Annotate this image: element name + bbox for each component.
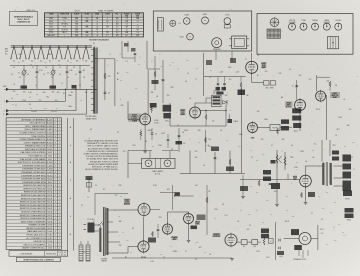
tube V2 6SK7 IF amplifier xyxy=(190,106,201,120)
svg-text:60: 60 xyxy=(95,185,97,187)
svg-text:SP: SP xyxy=(351,157,353,159)
hash choke 1 xyxy=(79,245,83,261)
speaker layout xyxy=(212,38,222,51)
svg-text:6H6: 6H6 xyxy=(251,138,254,140)
svg-text:+ 100: + 100 xyxy=(235,71,239,73)
power transformer T4 core xyxy=(104,207,105,256)
tube voltage chart table xyxy=(44,13,143,37)
field resistor box 1 xyxy=(241,240,247,248)
svg-text:T-500: T-500 xyxy=(48,248,52,250)
svg-text:425: 425 xyxy=(52,92,55,94)
label B plus xyxy=(117,79,119,81)
svg-text:PAGE 16-1: PAGE 16-1 xyxy=(27,9,36,12)
tube V12 label xyxy=(213,233,222,238)
svg-text:6SQ7: 6SQ7 xyxy=(180,37,184,39)
svg-text:J1: J1 xyxy=(87,197,89,199)
svg-text:4: 4 xyxy=(344,235,345,237)
parts table footer xyxy=(9,251,68,257)
title box model label xyxy=(10,12,38,26)
wire vol down xyxy=(275,168,279,207)
svg-text:6.3: 6.3 xyxy=(90,129,92,131)
svg-text:250: 250 xyxy=(229,79,232,81)
resistor R7 xyxy=(205,110,207,126)
svg-text:250: 250 xyxy=(86,26,89,28)
control knob 1 xyxy=(289,20,296,30)
svg-text:1: 1 xyxy=(4,101,5,103)
tube V10 phase inverter xyxy=(163,223,173,236)
svg-text:-1: -1 xyxy=(116,18,117,20)
svg-text:B: B xyxy=(15,105,16,107)
svg-text:.05: .05 xyxy=(237,221,239,223)
svg-text:.01: .01 xyxy=(289,69,291,71)
svg-text:350 V.: 350 V. xyxy=(285,221,290,223)
svg-text:.02: .02 xyxy=(305,161,307,163)
control knob 5 xyxy=(335,20,342,30)
svg-text:100: 100 xyxy=(86,18,89,20)
tuning capacitor C1B xyxy=(47,65,56,89)
phono chain xyxy=(86,114,88,130)
svg-text:2ND I.F. TRANSFORMER: 2ND I.F. TRANSFORMER xyxy=(25,128,47,131)
svg-text:100: 100 xyxy=(136,29,139,31)
bias value labels xyxy=(219,71,239,73)
svg-text:C31: C31 xyxy=(225,215,228,217)
svg-text:SPEAKER: SPEAKER xyxy=(213,48,222,51)
value labels set B xyxy=(18,53,339,136)
terminal SW1 xyxy=(4,100,66,104)
svg-text:250: 250 xyxy=(75,32,78,34)
value labels set A xyxy=(119,95,336,256)
speaker label blob xyxy=(343,191,352,201)
tube V1 label xyxy=(128,113,141,122)
svg-text:250: 250 xyxy=(159,217,162,219)
resistor R9 blob xyxy=(238,90,246,96)
svg-text:6.3: 6.3 xyxy=(116,21,118,23)
svg-text:0.4: 0.4 xyxy=(126,24,128,26)
wire riser x190b xyxy=(189,151,191,174)
small box pair xyxy=(268,239,273,244)
antenna loop unit in layout xyxy=(157,18,181,31)
svg-text:.05: .05 xyxy=(155,134,157,136)
dial escutcheon layout xyxy=(327,37,338,49)
svg-text:PLATE: PLATE xyxy=(74,13,80,16)
terminal SW2 xyxy=(4,109,76,113)
svg-text:3-30: 3-30 xyxy=(69,70,72,72)
svg-text:VOLUME: VOLUME xyxy=(289,22,296,24)
chassis layout box outline xyxy=(153,11,251,51)
svg-text:C4: C4 xyxy=(45,67,47,69)
svg-text:6SA7: 6SA7 xyxy=(185,14,189,17)
svg-text:6.3: 6.3 xyxy=(76,35,78,37)
IF transformer T1 xyxy=(212,90,222,106)
svg-text:PADDER 250-450 MMF: PADDER 250-450 MMF xyxy=(26,227,46,230)
avc chain blobs xyxy=(292,108,301,132)
wire top right link xyxy=(317,77,331,91)
tube socket 6SK7 layout xyxy=(202,14,209,24)
wire V10 V11 links xyxy=(168,212,191,243)
wire T1 left leg xyxy=(206,98,212,103)
svg-text:AMP.: AMP. xyxy=(181,113,186,116)
svg-text:B +: B + xyxy=(314,144,317,146)
label 1 MEG xyxy=(233,121,239,123)
dial lamp label xyxy=(152,170,163,176)
svg-text:PT: PT xyxy=(185,251,187,253)
svg-text:(REAR VIEW): (REAR VIEW) xyxy=(86,117,97,120)
svg-text:-8: -8 xyxy=(116,35,117,37)
volume control label xyxy=(271,160,281,193)
wire riser x215b xyxy=(214,152,216,174)
svg-text:2.1: 2.1 xyxy=(136,21,138,23)
svg-text:S2: S2 xyxy=(93,43,95,45)
resistor R16 xyxy=(226,159,234,171)
svg-text:30: 30 xyxy=(59,74,61,76)
tube V5 6SK7 2nd IF xyxy=(316,90,326,103)
svg-text:DIAL SCALE & POINTER: DIAL SCALE & POINTER xyxy=(25,148,46,151)
wire V1 grid xyxy=(128,101,140,119)
svg-text:250: 250 xyxy=(136,18,139,20)
svg-text:0: 0 xyxy=(107,18,108,20)
svg-text:OT: OT xyxy=(311,213,313,215)
svg-text:C2: C2 xyxy=(19,77,21,79)
svg-text:SPARTON MODELS 500-C SERIES B: SPARTON MODELS 500-C SERIES B xyxy=(23,259,54,262)
svg-text:1500: 1500 xyxy=(22,100,26,102)
svg-text:3-30: 3-30 xyxy=(28,92,31,94)
svg-text:13: 13 xyxy=(257,55,259,57)
svg-text:350: 350 xyxy=(86,21,89,23)
svg-text:.05: .05 xyxy=(189,98,191,100)
blob right risers xyxy=(332,151,339,161)
chart column notes xyxy=(74,9,113,12)
svg-text:R30: R30 xyxy=(215,209,218,211)
svg-text:3-30: 3-30 xyxy=(39,70,42,72)
svg-text:S-4: S-4 xyxy=(40,61,43,63)
svg-text:PILOT LAMP NO. 44: PILOT LAMP NO. 44 xyxy=(29,155,46,158)
svg-text:47: 47 xyxy=(271,145,273,147)
svg-text:6.3: 6.3 xyxy=(132,228,134,230)
svg-text:GRILLE CLOTH & BAFFLE: GRILLE CLOTH & BAFFLE xyxy=(23,243,46,246)
svg-text:.02: .02 xyxy=(208,191,210,193)
svg-text:C1: C1 xyxy=(18,73,20,75)
wire V6 link right xyxy=(280,127,292,129)
svg-text:CONDENSER 250 MMF MICA: CONDENSER 250 MMF MICA xyxy=(21,174,46,177)
tube V7 6K6 output xyxy=(300,174,312,188)
svg-text:OUTPUT TRANSFORMER: OUTPUT TRANSFORMER xyxy=(24,141,46,144)
svg-text:.01: .01 xyxy=(177,125,179,127)
svg-text:S-3: S-3 xyxy=(31,61,34,63)
speaker field coil circle xyxy=(291,229,311,261)
svg-text:RESISTORS: RESISTORS xyxy=(46,253,57,255)
svg-text:ALL RESISTORS 1/2 WATT UNLESS: ALL RESISTORS 1/2 WATT UNLESS xyxy=(88,147,119,150)
tube V8 label xyxy=(124,199,131,206)
svg-text:0.4: 0.4 xyxy=(126,32,128,34)
svg-text:OSC.: OSC. xyxy=(165,121,169,123)
svg-text:470K: 470K xyxy=(161,133,165,135)
speaker lower stack xyxy=(345,208,354,222)
svg-text:OUTPUT: OUTPUT xyxy=(61,29,68,31)
svg-text:250: 250 xyxy=(39,100,42,102)
wire V1 cathode xyxy=(143,126,147,153)
svg-text:100: 100 xyxy=(86,35,89,37)
wire lamp left xyxy=(128,151,142,179)
svg-text:SPEAKER & FIELD COIL: SPEAKER & FIELD COIL xyxy=(25,145,45,148)
svg-text:.005: .005 xyxy=(166,189,169,191)
control layout box outline xyxy=(257,14,353,55)
wire riser x318 xyxy=(317,225,319,250)
chassis drop small 2 xyxy=(230,51,236,63)
wire avc return xyxy=(170,103,226,126)
svg-text:C3: C3 xyxy=(32,67,34,69)
svg-text:.05: .05 xyxy=(203,165,205,167)
svg-text:5: 5 xyxy=(15,10,16,12)
chassis drop small 1 xyxy=(206,51,216,65)
capacitor C14 xyxy=(223,77,226,91)
svg-text:GANG TUNING CONDENSER: GANG TUNING CONDENSER xyxy=(21,220,46,223)
mesh labels extra xyxy=(11,74,88,113)
svg-text:425: 425 xyxy=(57,92,60,94)
svg-text:TRANS.: TRANS. xyxy=(101,260,108,263)
svg-text:CONDENSERS: CONDENSERS xyxy=(20,253,33,255)
svg-text:PHONO: PHONO xyxy=(335,20,342,22)
wire riser x203.7 xyxy=(203,53,205,96)
service notes paragraph xyxy=(84,139,119,171)
svg-text:FIL.: FIL. xyxy=(116,14,120,16)
tube socket 6SA7 layout xyxy=(183,14,190,25)
capacitor C13 xyxy=(217,77,220,91)
svg-text:+ 250: + 250 xyxy=(219,71,223,73)
svg-text:VOLTS: VOLTS xyxy=(74,10,79,12)
svg-text:470: 470 xyxy=(199,247,202,249)
capacitor C11 xyxy=(228,114,233,123)
svg-text:BALLAST: BALLAST xyxy=(47,34,54,37)
svg-text:CHASSIS 5-26: CHASSIS 5-26 xyxy=(17,21,31,24)
svg-text:10: 10 xyxy=(187,73,189,75)
svg-text:-18: -18 xyxy=(116,23,118,25)
svg-text:6.3: 6.3 xyxy=(76,29,78,31)
svg-text:1-2: 1-2 xyxy=(125,61,127,63)
tube socket 6SQ7 layout xyxy=(180,33,194,40)
tube V3 6SK7 RF amplifier xyxy=(246,60,258,75)
osc section label stack xyxy=(163,105,172,123)
svg-text:330: 330 xyxy=(198,130,201,132)
svg-text:T: T xyxy=(100,51,101,53)
svg-text:1: 1 xyxy=(98,61,99,63)
ground bottom bus xyxy=(230,259,234,261)
svg-text:245: 245 xyxy=(86,32,89,34)
wire V6 out xyxy=(258,127,271,129)
svg-text:50: 50 xyxy=(27,74,29,76)
wire V7 grid bus xyxy=(240,174,300,180)
svg-text:ALIGN TRIMMERS IN ORDER SHOWN.: ALIGN TRIMMERS IN ORDER SHOWN. xyxy=(85,168,118,171)
svg-text:A-2231: A-2231 xyxy=(47,118,53,121)
svg-text:NO SIGNAL INPUT. BAND SWITCH I: NO SIGNAL INPUT. BAND SWITCH IN xyxy=(87,158,119,161)
svg-text:1.4: 1.4 xyxy=(106,26,108,28)
svg-text:140: 140 xyxy=(208,139,211,141)
svg-text:S.W.: S.W. xyxy=(5,51,9,53)
tube V2 label xyxy=(180,109,185,116)
resistor R22 xyxy=(301,192,315,198)
svg-text:IN MFD. UNLESS OTHERWISE MARKE: IN MFD. UNLESS OTHERWISE MARKED. xyxy=(84,153,119,156)
svg-text:FLD: FLD xyxy=(243,246,246,248)
svg-text:OUTPUT: OUTPUT xyxy=(213,236,222,238)
svg-text:B+: B+ xyxy=(117,79,119,81)
svg-text:C20: C20 xyxy=(123,151,126,153)
dial drive pulley xyxy=(270,17,280,27)
wire switch collector xyxy=(10,64,90,66)
svg-text:50: 50 xyxy=(13,67,15,69)
svg-text:R1: R1 xyxy=(63,93,65,95)
speckle noise xyxy=(12,60,355,255)
capacitor C30 xyxy=(157,224,160,238)
svg-text:C9: C9 xyxy=(47,97,49,99)
oscillator antenna coil L2 xyxy=(91,48,98,114)
tube V4 6SQ7 det avc xyxy=(295,98,306,112)
svg-text:8: 8 xyxy=(170,65,171,67)
label B plus right xyxy=(314,144,317,146)
tube V12 6K6 output xyxy=(225,233,237,248)
trimmer cap row A xyxy=(36,65,43,89)
tube V9 5Y3 rectifier xyxy=(138,240,149,254)
wire jog x86 xyxy=(86,89,88,114)
svg-text:4 OSC: 4 OSC xyxy=(154,122,160,124)
padder capacitor xyxy=(79,65,86,89)
svg-text:.05: .05 xyxy=(156,96,158,98)
T4 secondary taps xyxy=(108,210,113,253)
svg-text:B+: B+ xyxy=(257,75,259,77)
svg-text:8: 8 xyxy=(354,169,355,171)
svg-text:P1: P1 xyxy=(81,205,83,207)
svg-text:100: 100 xyxy=(55,100,58,102)
svg-text:8.5: 8.5 xyxy=(126,35,128,37)
schematic caption bar xyxy=(16,257,60,261)
svg-text:C6: C6 xyxy=(51,77,53,79)
wire V3 top xyxy=(251,53,253,60)
marks near V1 lower xyxy=(147,130,169,148)
tube V10 label xyxy=(171,236,178,241)
wire riser x330b xyxy=(329,140,331,156)
svg-text:ISOLATION TRANSFORMER WHEN: ISOLATION TRANSFORMER WHEN xyxy=(88,163,118,166)
wire V2 output xyxy=(201,110,227,111)
svg-text:470: 470 xyxy=(349,109,352,111)
svg-text:R16: R16 xyxy=(133,145,136,147)
svg-text:CONDENSER 100 MMF MICA: CONDENSER 100 MMF MICA xyxy=(21,178,46,181)
wire band switch bus xyxy=(11,46,92,47)
svg-text:L5: L5 xyxy=(61,83,63,85)
value label 250 OSC xyxy=(154,119,160,124)
svg-text:117: 117 xyxy=(195,259,198,261)
vertical chain x205 xyxy=(205,130,212,152)
wire V3 out xyxy=(252,73,264,82)
tuning capacitor C1A xyxy=(18,65,27,89)
field resistor box 2 xyxy=(247,240,258,248)
capacitor C20 xyxy=(211,147,219,160)
hash choke 2 xyxy=(86,245,90,261)
svg-text:7: 7 xyxy=(160,54,161,56)
svg-text:TOL: TOL xyxy=(58,252,61,254)
svg-text:.05: .05 xyxy=(343,99,345,101)
svg-text:2: 2 xyxy=(108,65,109,67)
svg-text:INV.: INV. xyxy=(173,239,177,241)
wire AVC bus vertical xyxy=(241,88,243,174)
divider resistor pair xyxy=(258,229,269,246)
svg-text:55: 55 xyxy=(126,29,128,31)
svg-text:8.5: 8.5 xyxy=(126,26,128,28)
parts list table xyxy=(6,118,61,250)
svg-text:S-1: S-1 xyxy=(13,61,16,63)
svg-text:250: 250 xyxy=(327,81,330,83)
svg-text:L7: L7 xyxy=(29,97,31,99)
tube V1 6SA7 converter xyxy=(140,113,151,127)
svg-text:.01: .01 xyxy=(185,81,187,83)
svg-text:.1: .1 xyxy=(119,99,120,101)
svg-text:S-5: S-5 xyxy=(49,61,52,63)
svg-text:.01: .01 xyxy=(291,86,293,88)
svg-text:6.3: 6.3 xyxy=(76,18,78,20)
svg-text:PL: PL xyxy=(117,132,119,134)
resistor R2 22K xyxy=(104,73,111,79)
switch terminal text xyxy=(5,48,9,56)
wire jog x65 xyxy=(65,89,66,102)
svg-text:6.3: 6.3 xyxy=(116,27,118,29)
terminal phono xyxy=(4,113,87,117)
svg-text:PHONO: PHONO xyxy=(31,111,38,113)
svg-text:.1: .1 xyxy=(281,151,282,153)
svg-text:456: 456 xyxy=(151,92,154,94)
wire HV bottom xyxy=(113,247,138,254)
speaker frame stack xyxy=(343,155,352,192)
blobs below V11 xyxy=(191,215,206,230)
svg-text:TERMINALS TO CHASSIS. 1000 OHM: TERMINALS TO CHASSIS. 1000 OHM xyxy=(87,142,119,145)
trimmer cap row B xyxy=(66,65,73,89)
svg-text:250: 250 xyxy=(183,143,186,145)
svg-text:TUBE SOCKET OCTAL WAFER: TUBE SOCKET OCTAL WAFER xyxy=(20,158,47,161)
svg-text:OSC. TRIM.: OSC. TRIM. xyxy=(265,88,274,90)
wire V2 plate xyxy=(195,103,212,106)
svg-text:115: 115 xyxy=(103,189,106,191)
svg-text:CABINET COMPLETE 500-C: CABINET COMPLETE 500-C xyxy=(22,247,46,250)
dial lamp assembly xyxy=(142,158,175,168)
wire bus y173 xyxy=(180,173,245,175)
capacitor C6 xyxy=(104,92,111,94)
svg-text:SERVICING. I.F. PEAK 456 K.C.: SERVICING. I.F. PEAK 456 K.C. xyxy=(92,166,119,169)
wire V4 chain down xyxy=(299,112,301,131)
svg-text:SPKR.: SPKR. xyxy=(345,198,350,200)
svg-text:350: 350 xyxy=(333,145,336,147)
svg-text:VOLTAGES MEASURED FROM SOCKET: VOLTAGES MEASURED FROM SOCKET xyxy=(84,139,119,142)
svg-text:.05: .05 xyxy=(108,93,110,95)
tube V8 6SQ7 1st audio xyxy=(138,202,150,217)
svg-text:.05: .05 xyxy=(182,132,184,134)
wire speaker links xyxy=(334,166,343,186)
wire jog x76 xyxy=(75,89,76,111)
svg-text:5Y3G: 5Y3G xyxy=(225,15,230,17)
wire riser x104.9 xyxy=(104,59,106,100)
svg-text:S-7: S-7 xyxy=(67,61,70,63)
svg-text:3.2: 3.2 xyxy=(106,35,108,37)
AC plug xyxy=(84,218,96,233)
svg-text:330: 330 xyxy=(261,139,264,141)
svg-text:-8: -8 xyxy=(96,32,98,34)
svg-text:C6: C6 xyxy=(73,67,75,69)
svg-text:L4: L4 xyxy=(35,85,37,87)
svg-text:5Y3G: 5Y3G xyxy=(49,32,54,34)
wire riser x207 xyxy=(206,185,208,235)
svg-text:TONE: TONE xyxy=(301,20,305,22)
resistor R9 xyxy=(240,77,242,96)
svg-text:±10: ±10 xyxy=(64,254,67,256)
svg-text:±20: ±20 xyxy=(64,252,67,254)
page heading text xyxy=(15,9,36,12)
svg-text:.05: .05 xyxy=(222,204,224,206)
svg-text:VOLUME CONTROL AT MINIMUM AND: VOLUME CONTROL AT MINIMUM AND xyxy=(86,155,119,158)
